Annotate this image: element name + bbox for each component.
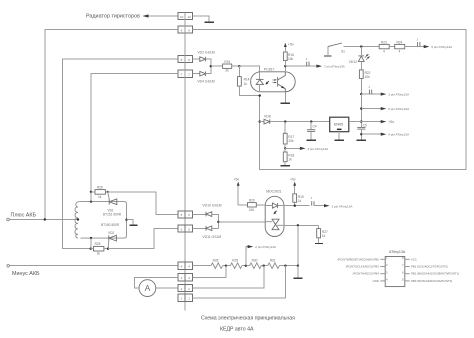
wire VD4 cathode to junction [206,66,211,74]
pin 8 stub [402,256,417,261]
resistor Rsh4 zigzag [268,263,280,269]
wire to VD8 [260,121,264,123]
node pin4 tap [360,133,362,135]
wire regulator ground [338,132,340,140]
node VD8 anode [259,120,261,122]
resistor R22 [359,70,370,94]
wire R15 to LED node [232,65,240,67]
op-amp U3 MOC3021 body [265,196,284,236]
svg-text:+5v: +5v [288,43,294,47]
resistor Rsh1 zigzag [211,263,223,269]
switch S1 [324,43,345,56]
resistor R18 [283,148,294,165]
diode VD11 [206,226,212,231]
node LED anode top [238,65,240,67]
op-amp U1 PC817 optocoupler body [251,72,296,92]
power +5v above R19 [290,177,296,193]
thyristor VD2 lower [108,235,116,248]
svg-text:EN05: EN05 [334,122,343,126]
connector X1 pin9 block [178,26,193,33]
diode VD10 [206,212,212,217]
svg-text:1k: 1k [322,234,326,238]
arrowhead pin4 [381,133,387,136]
node shunt end [297,265,299,267]
wire Rsh2 to node [242,265,250,267]
svg-text:S1: S1 [341,50,345,54]
wire regulator output [349,121,362,123]
wire R24 to pin5 arrow [405,46,425,48]
wire join to MOC triac [218,221,265,223]
svg-text:VD8: VD8 [264,115,271,119]
svg-text:PB2 (SCK/ADC1/T0/PCINT2): PB2 (SCK/ADC1/T0/PCINT2) [411,265,448,269]
svg-text:10: 10 [180,15,184,19]
svg-text:A: A [145,283,151,293]
wire loop mid to ground [127,220,134,225]
svg-text:Плюс АКБ: Плюс АКБ [11,212,37,218]
node R26 right [107,191,109,193]
U1 emission arrows [266,79,277,85]
wire big loop: pin9 right, down right side, along bottom, up to optocoupler [193,30,467,170]
wire R20 to MOC [256,204,265,206]
wire junction to R15 [211,65,223,67]
wire MOC triac out [283,224,318,226]
node R26 left [90,191,92,193]
wire R26 leads [91,191,108,193]
ground loop mid [129,224,137,226]
wire pin4 tap [361,133,381,135]
pin 4 stub [373,278,388,283]
svg-text:240: 240 [249,208,255,212]
connector X1 pin8 block [178,56,193,63]
wire Rsh4 to end node [279,265,298,267]
resistor R17 [283,122,294,149]
svg-text:4: 4 [383,50,385,54]
node R17-R18 divider [284,147,286,149]
wire pin6 tap [361,108,381,110]
connector X1 pin5 block [178,211,193,218]
wire ammeter to pin2 [156,287,178,289]
node +5v out [360,120,362,122]
node R17 top [284,120,286,122]
svg-text:VD10 GS1M: VD10 GS1M [202,204,221,208]
terminal minus [7,264,10,267]
svg-text:VD11 GS1M: VD11 GS1M [202,235,221,239]
connector X1 pin3 block [178,274,193,281]
node VD12 top [360,45,362,47]
svg-text:Минус АКБ: Минус АКБ [12,271,40,277]
svg-text:5 pin ATtiny13A: 5 pin ATtiny13A [431,45,452,49]
jumper ticks pin1 wire [368,85,371,94]
resistor R15 [223,60,232,72]
svg-text:(PCINT4/ADC2) PB4: (PCINT4/ADC2) PB4 [353,272,380,276]
svg-text:1k: 1k [244,82,248,86]
svg-text:BT150-500R: BT150-500R [101,223,120,227]
wire S1 to R23 [344,46,380,48]
thyristor loop body [81,202,127,239]
wire VD10 to moc node [212,214,219,228]
regulator U2 EN05 [330,117,349,132]
svg-text:R29: R29 [232,259,238,263]
ground R18 [280,165,290,167]
node R19 bottom [294,205,296,207]
resistor R20 [248,199,257,212]
node shunt tap1 [225,265,227,267]
svg-text:R23: R23 [381,40,387,44]
svg-text:10: 10 [188,15,192,19]
wire pin4 to shunt [193,265,211,267]
main vertical bus [184,12,186,310]
node plus loop tap [44,218,46,220]
wire MOC pin2 out [283,205,310,207]
connector X1 pin10 block [178,12,193,19]
node shunt tap4 [284,265,286,267]
node triac out [297,224,299,226]
wire radiator arrow lead [146,15,177,17]
svg-text:VCC: VCC [411,257,417,261]
svg-text:R25: R25 [95,242,101,246]
node VD10 VD11 join [217,221,219,223]
jumper ticks pin7 wire [306,57,309,66]
wire collector to R16 node [284,66,286,72]
wire R26 right to pin5 block [108,192,178,215]
wire big loop: pin9 left down to plus node [45,30,178,220]
svg-text:GND: GND [373,279,379,283]
pin 7 stub [402,263,448,268]
wire pin1 tap [361,93,381,95]
arrowhead pin5 [424,45,430,48]
node diode junction [210,65,212,67]
resistor R27 [317,225,328,243]
wire tap1 to pin3 [193,266,226,278]
wire shunt end to ground [297,266,299,278]
terminal plus [7,218,10,221]
wire pin8 to VD2 [193,58,200,60]
svg-text:Радиатор тиристоров: Радиатор тиристоров [86,14,140,20]
svg-text:10k: 10k [288,57,294,61]
wire to R20 [238,204,247,206]
wire VD11 to moc node [212,228,219,230]
svg-text:ATtiny13A: ATtiny13A [389,250,406,254]
diode VD2 [200,57,206,62]
arrowhead pin3 [300,147,306,150]
power +5v above R16 [284,43,294,52]
diode U1 LED [256,79,264,91]
node loop bottom R25 tap [90,237,92,239]
svg-text:2 pin ATtiny13A: 2 pin ATtiny13A [332,204,353,208]
resistor R23 [379,40,389,53]
svg-text:VD2 GS1M: VD2 GS1M [197,51,214,55]
wire pin3 tap [285,147,301,149]
svg-text:1k: 1k [298,199,302,203]
pin 2 stub [346,263,388,268]
resistor R24 [395,40,405,53]
connector X1 pin7 block [178,70,193,77]
wire R25 leads [91,248,108,250]
wire pin7 left loop down to R26 left [91,74,178,192]
thyristor VD1 [108,192,117,205]
node R25 left [90,248,92,250]
arrowhead pin7 [316,65,322,68]
pin 6 stub [402,270,459,275]
wire plus bus [9,219,78,221]
svg-text:4 pin ATtiny13A: 4 pin ATtiny13A [388,133,409,137]
LED VD12 [349,47,371,70]
diode VD8 [264,119,270,124]
wire +5 rail down [360,94,362,127]
IC U4 ATtiny13A pinout box [385,257,405,287]
svg-text:Схема электрическая принципиал: Схема электрическая принципиальная [201,315,295,321]
resistor R25 [94,242,104,255]
resistor Rsh2 zigzag [230,263,242,269]
wire pin10 to ground [193,16,209,22]
wire tap2 to pin2 arrow [246,247,249,266]
wire pin5 to VD10 [193,213,206,215]
resistor R19 [293,194,304,206]
svg-text:MOC3021: MOC3021 [266,189,282,193]
svg-text:R20: R20 [249,199,255,203]
arrowhead +5v tap [381,120,387,123]
wire loop bottom to R25 [90,238,92,249]
node loop right mid [125,219,127,221]
svg-text:1k: 1k [98,195,102,199]
ground R27 [315,243,323,245]
svg-text:C5: C5 [363,124,367,128]
wire triac out down to shunt [297,225,299,265]
arrowhead shunt sense [248,245,254,248]
wire tap3 to pin2 block [193,266,264,288]
svg-text:+5v: +5v [388,120,394,124]
transistor U1 phototransistor [278,72,286,92]
svg-text:1k: 1k [97,252,101,256]
wire tap4 to pin1 block [193,266,286,298]
wire pin3 to ammeter [135,277,179,288]
wire VD2 cathode to junction [206,59,211,66]
wire R25 right to pin6 block [108,229,178,249]
svg-text:+5v: +5v [234,177,240,181]
connector X1 pin6 block [178,225,193,232]
node C4 top [310,120,312,122]
node pin6 tap [360,107,362,109]
node pin1 tap [360,93,362,95]
svg-text:R28: R28 [213,259,219,263]
wire R23-R24 [389,46,395,48]
svg-text:PC817: PC817 [264,67,274,71]
wire pin7 to VD4 [193,73,200,75]
ground emitter [281,102,291,104]
node coil center tap [77,218,79,220]
wire pin6 to VD11 [193,228,206,230]
resistor R16 [283,52,294,66]
ground C4 [307,139,316,141]
arrowhead pin6 [381,107,387,110]
svg-text:1 pin ATtiny13A: 1 pin ATtiny13A [388,93,409,97]
diode VD4 [200,71,206,76]
wire VD8 to regulator input [270,121,330,123]
wire collector to pin7 arrow [285,65,317,67]
svg-text:R30: R30 [252,259,258,263]
wire minus bus [10,265,179,267]
ground C5 [357,139,366,141]
node shunt tap3 [263,265,265,267]
svg-text:(PCINT3/CLKI/ADC3) PB3: (PCINT3/CLKI/ADC3) PB3 [346,265,380,269]
node loop top R26 tap [90,200,92,202]
pin 1 stub [338,256,388,261]
svg-text:BT151-500R: BT151-500R [103,213,122,217]
U3 emission arrows [274,211,277,215]
wire emitter to ground [284,92,286,103]
svg-text:R24: R24 [397,40,403,44]
wire node to optocoupler LED [239,66,259,79]
node LED cathode [259,94,261,96]
svg-text:4: 4 [399,50,401,54]
svg-text:10k: 10k [365,75,371,79]
arrowhead radiator (left) [143,14,149,17]
connector X1 pin2 block [178,285,193,292]
wire ticks to arrow pin2 [314,205,325,207]
svg-text:1k: 1k [288,158,292,162]
ammeter PA1 [139,280,156,297]
capacitor C5 [357,124,367,140]
resistor R26 [95,186,105,199]
connector X1 pin4 block [178,262,193,269]
ground shunt [293,277,302,279]
svg-text:C4: C4 [313,125,317,129]
resistor R14 [238,66,260,95]
svg-text:7 pin ATtiny13A: 7 pin ATtiny13A [324,65,345,69]
node collector [284,65,286,67]
wire Rsh3 to node [261,265,268,267]
resistor Rsh3 zigzag [250,263,262,269]
triac U3 [266,219,284,230]
pin 3 stub [353,270,388,275]
jumper ticks pin5 wire [417,37,420,46]
svg-text:VD2: VD2 [108,231,114,235]
jumper ticks pin2 wire [311,196,314,206]
capacitor C4 [307,122,317,140]
svg-text:2k: 2k [225,69,229,73]
svg-text:6 pin ATtiny13A: 6 pin ATtiny13A [388,107,409,111]
connector X1 pin1 block [178,294,193,301]
svg-text:2 pin ATtiny13A: 2 pin ATtiny13A [255,245,276,249]
node shunt tap2 [245,265,247,267]
svg-text:PB1 (MISO/AIN1/OC0B/INT0/PCINT: PB1 (MISO/AIN1/OC0B/INT0/PCINT1) [411,272,459,276]
wire Rsh1 to node [223,265,231,267]
svg-text:КЕДР авто 4А: КЕДР авто 4А [220,326,254,332]
svg-text:20k: 20k [288,139,294,143]
arrowhead pin1 [381,93,387,96]
svg-text:PB0 (MOSI/AIN0/OC0A/PCINT0): PB0 (MOSI/AIN0/OC0A/PCINT0) [411,279,452,283]
wire +5v tap [361,121,382,123]
svg-text:R15: R15 [224,60,230,64]
svg-text:+5v: +5v [290,177,296,181]
wire pin8 left loop down to R25 left [63,59,178,249]
arrowhead pin2 [324,204,330,207]
ground at pin10 [205,21,214,23]
svg-text:R26: R26 [97,186,103,190]
svg-text:VD4 GS1M: VD4 GS1M [197,79,214,83]
power +5v MOC left [234,177,240,204]
inductor L1 coil left edge [75,202,81,239]
diode U3 LED [266,203,284,208]
svg-text:(PCINT5/RESET/ADC0/dW) PB5: (PCINT5/RESET/ADC0/dW) PB5 [338,257,380,261]
svg-text:R31: R31 [270,259,276,263]
node R25 right [107,248,109,250]
svg-text:VD12: VD12 [349,60,358,64]
wire loop top to R26 [90,192,92,202]
pin 5 stub [402,278,452,283]
ground regulator [335,139,344,141]
svg-text:3 pin ATtiny13A: 3 pin ATtiny13A [308,147,329,151]
